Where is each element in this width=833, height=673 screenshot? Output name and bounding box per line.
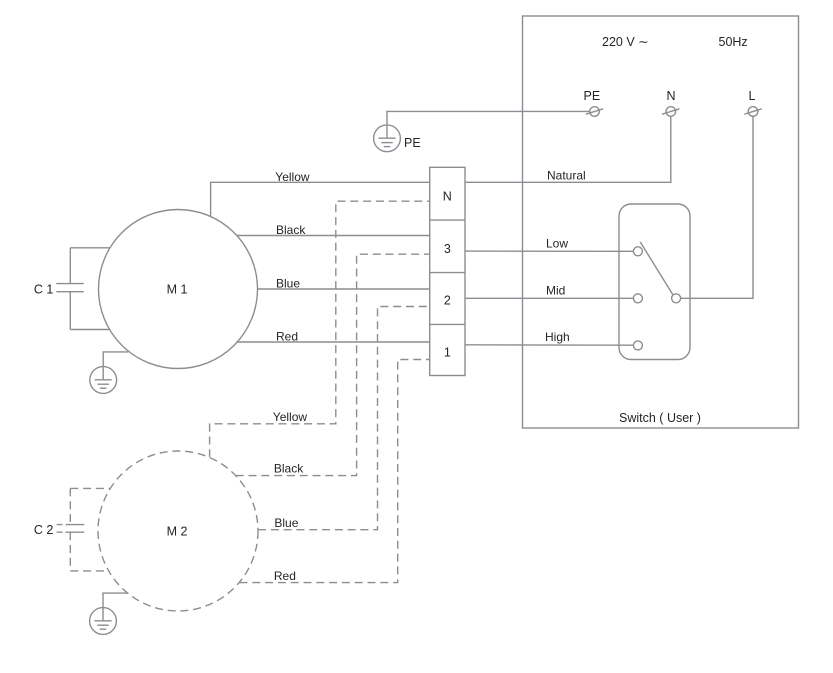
terminal L xyxy=(744,107,761,117)
svg-text:PE: PE xyxy=(404,136,421,150)
wire C1 top xyxy=(70,247,110,249)
switch body xyxy=(619,204,690,360)
svg-text:M 1: M 1 xyxy=(167,283,188,297)
capacitor C1 xyxy=(56,248,84,330)
motor M1 xyxy=(99,210,258,369)
svg-text:1: 1 xyxy=(444,345,451,359)
wire C2 top (dashed) xyxy=(70,487,110,489)
svg-text:Yellow: Yellow xyxy=(275,170,310,184)
svg-text:2: 2 xyxy=(444,294,451,308)
terminal PE xyxy=(586,107,603,117)
motor M2 (dashed) xyxy=(98,451,258,611)
svg-text:Red: Red xyxy=(274,569,296,583)
svg-text:Switch ( User ): Switch ( User ) xyxy=(619,411,701,425)
svg-text:Black: Black xyxy=(276,223,306,237)
svg-text:Low: Low xyxy=(546,237,568,251)
wire C1 bottom xyxy=(70,329,110,331)
switch contact High xyxy=(633,341,642,350)
wire High xyxy=(465,344,633,346)
wire blue M1 xyxy=(258,288,430,290)
svg-text:C 1: C 1 xyxy=(34,283,54,297)
wire PE xyxy=(387,111,590,125)
svg-text:Natural: Natural xyxy=(547,169,586,183)
PE ground symbol xyxy=(374,125,401,152)
wire M2 ground xyxy=(103,593,128,608)
wire Low xyxy=(465,250,633,252)
wire L to switch common xyxy=(681,116,753,298)
switch lever xyxy=(640,242,673,295)
terminal N xyxy=(662,107,679,117)
wire red M2 (dashed) xyxy=(240,360,430,583)
terminal block xyxy=(430,167,465,375)
svg-text:PE: PE xyxy=(584,89,601,103)
svg-text:Yellow: Yellow xyxy=(273,410,308,424)
wire Mid xyxy=(465,297,633,299)
svg-text:Blue: Blue xyxy=(274,516,298,530)
wire black M2 (dashed) xyxy=(236,254,430,475)
svg-text:Blue: Blue xyxy=(276,276,300,290)
svg-text:Mid: Mid xyxy=(546,284,565,298)
svg-text:High: High xyxy=(545,330,570,344)
ground symbol M1 xyxy=(90,367,117,394)
wire red M1 xyxy=(236,341,429,343)
svg-text:Red: Red xyxy=(276,329,298,343)
svg-text:C 2: C 2 xyxy=(34,523,54,537)
wire blue M2 (dashed) xyxy=(258,307,430,530)
switch contact Mid xyxy=(633,294,642,303)
ground symbol M2 xyxy=(90,608,117,635)
wire C2 bottom (dashed) xyxy=(70,570,108,572)
svg-text:Black: Black xyxy=(274,462,304,476)
wire yellow M2 (dashed) xyxy=(210,201,430,457)
wire M1 ground xyxy=(103,352,128,367)
wire N to Natural xyxy=(465,116,671,182)
svg-text:50Hz: 50Hz xyxy=(719,35,748,49)
svg-text:N: N xyxy=(443,190,452,204)
svg-text:220 V ∼: 220 V ∼ xyxy=(602,35,649,49)
enclosure box (supply / switch user) xyxy=(523,16,799,428)
svg-text:N: N xyxy=(667,89,676,103)
wire black M1 xyxy=(237,235,430,237)
switch contact Low xyxy=(633,247,642,256)
switch common contact xyxy=(672,294,681,303)
svg-text:3: 3 xyxy=(444,242,451,256)
wire yellow M1 xyxy=(211,182,430,217)
svg-text:L: L xyxy=(749,89,756,103)
capacitor C2 (dashed) xyxy=(57,488,85,571)
svg-text:M 2: M 2 xyxy=(167,525,188,539)
